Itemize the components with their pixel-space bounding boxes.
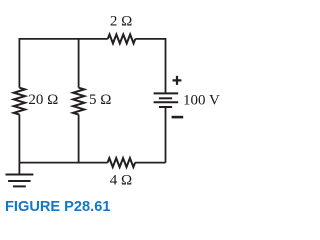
svg-text:5 Ω: 5 Ω <box>89 92 111 108</box>
svg-text:FIGURE P28.61: FIGURE P28.61 <box>5 199 110 215</box>
svg-text:20 Ω: 20 Ω <box>28 92 58 108</box>
svg-text:2 Ω: 2 Ω <box>110 14 132 30</box>
svg-text:100 V: 100 V <box>183 93 220 109</box>
svg-text:4 Ω: 4 Ω <box>110 172 132 188</box>
